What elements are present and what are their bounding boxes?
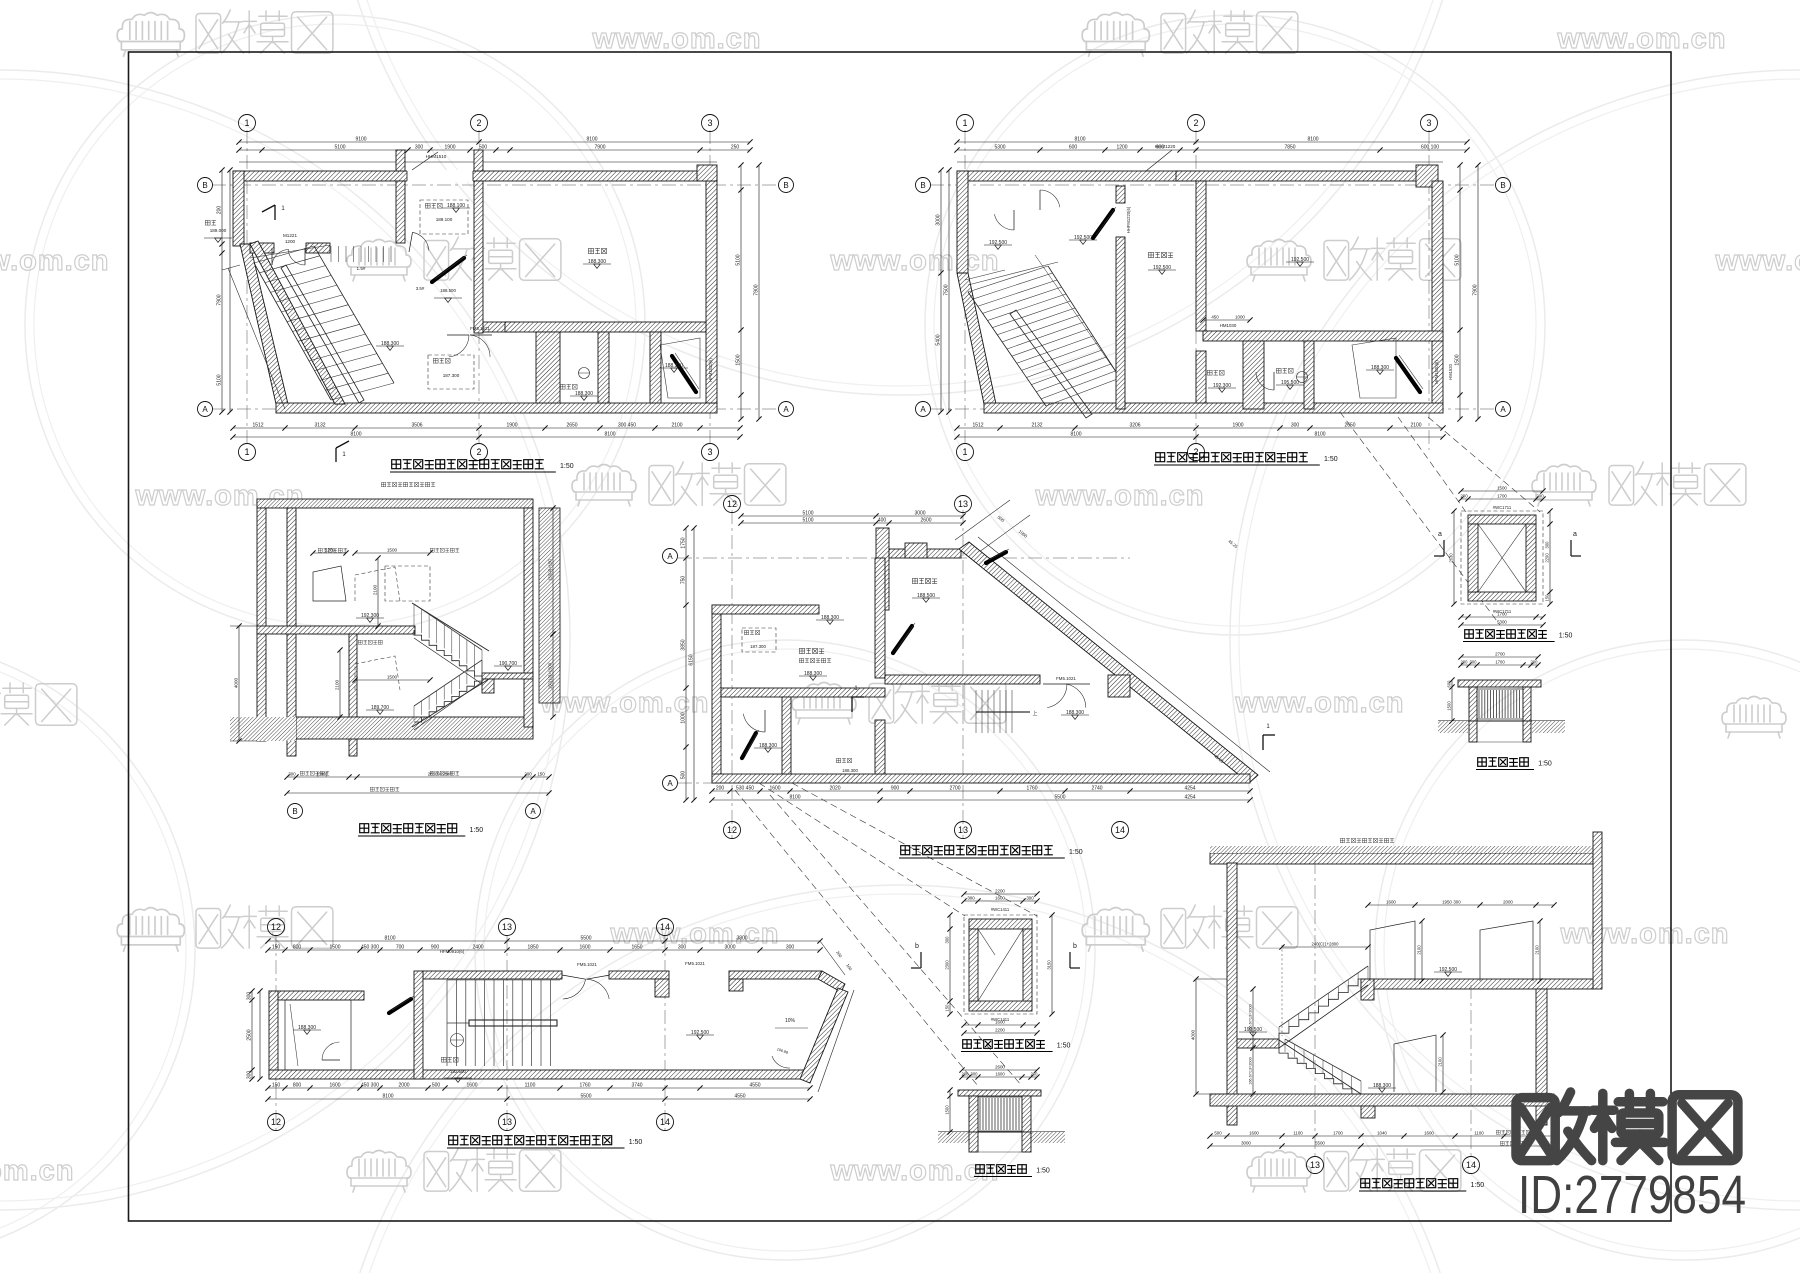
B7 top wall right segs [609, 971, 669, 979]
B2 top dimension row [957, 141, 1467, 143]
svg-text:300: 300 [1453, 899, 1461, 904]
B7 bubble 14 top [657, 919, 674, 936]
svg-text:www.om.cn: www.om.cn [829, 1155, 999, 1187]
B2 grid bubble A right [1496, 402, 1511, 417]
svg-text:3.5#: 3.5# [416, 286, 425, 291]
B1 right dimension column [740, 165, 742, 419]
B4 diagonal outer line [978, 537, 1270, 772]
B4 lower-left blast mark [742, 733, 756, 758]
svg-text:B: B [1500, 181, 1505, 190]
svg-text:1:50: 1:50 [629, 1139, 643, 1146]
svg-text:1850: 1850 [527, 944, 538, 950]
B7 grid lines [275, 935, 277, 1130]
B9 stair cross lines [1279, 1040, 1361, 1094]
B3 note above [381, 482, 385, 486]
B9 left rotated dims [1252, 989, 1254, 1048]
B2 trapezoid deflector [1352, 338, 1396, 398]
svg-text:300: 300 [786, 944, 795, 950]
svg-text:M1221: M1221 [283, 233, 297, 238]
svg-text:300: 300 [967, 895, 975, 900]
B8 inner frame [978, 929, 1023, 1001]
svg-text:1:50: 1:50 [1036, 1168, 1050, 1175]
svg-text:800: 800 [293, 1082, 302, 1088]
watermark row 1 [117, 13, 184, 57]
B1 room jiqi label [560, 384, 565, 389]
B1 grid bubble 2 bottom [471, 444, 488, 461]
B1 wall under filter room [505, 322, 706, 332]
svg-text:2100: 2100 [1534, 945, 1539, 955]
B2 stair dims diag [1035, 255, 1125, 385]
svg-text:300: 300 [971, 1071, 979, 1076]
B4 left dim column [685, 528, 687, 800]
svg-text:7900: 7900 [594, 144, 605, 150]
svg-text:7900: 7900 [753, 284, 759, 295]
B2 detail circle [1297, 372, 1308, 383]
svg-text:2100: 2100 [671, 422, 682, 428]
B7 top dim rows [268, 940, 820, 942]
B3 downstand wall [349, 634, 357, 756]
svg-text:12: 12 [727, 499, 737, 509]
B4 top walls near 13 [876, 528, 889, 610]
B1 room door FM5.1621 [447, 334, 469, 336]
svg-text:1700: 1700 [1333, 1130, 1343, 1135]
svg-text:450 300: 450 300 [361, 1082, 379, 1088]
B9 soil strip above slab [1210, 846, 1593, 853]
B1 grid bubble 3 bottom [702, 444, 719, 461]
svg-text:13: 13 [1310, 1160, 1320, 1170]
svg-text:8100: 8100 [384, 935, 395, 941]
B2 right room wall HM1030 [1203, 331, 1443, 341]
B3 left outer wall [257, 508, 266, 741]
svg-text:600: 600 [1069, 144, 1078, 150]
border frame [129, 52, 1672, 1221]
B3 right side dims [552, 508, 554, 634]
svg-text:1900: 1900 [506, 422, 517, 428]
svg-text:13: 13 [502, 922, 512, 932]
B9 left wall [1227, 863, 1237, 1125]
svg-text:2200: 2200 [995, 1027, 1005, 1032]
B4 bubble 14 bottom [1112, 822, 1129, 839]
svg-text:HFM1520(6): HFM1520(6) [708, 358, 713, 382]
B1 grid bubble A left [198, 402, 213, 417]
B9 bubble 14 [1463, 1157, 1480, 1174]
B9 bottom dim rows [1210, 1135, 1554, 1137]
B3 bottom slab [296, 717, 533, 739]
svg-text:1900: 1900 [444, 144, 455, 150]
B6 louver frame [1477, 689, 1523, 719]
svg-text:5100: 5100 [735, 254, 741, 265]
svg-text:7850: 7850 [1284, 144, 1295, 150]
svg-text:1600: 1600 [1386, 899, 1396, 904]
svg-text:1:50: 1:50 [1324, 456, 1338, 463]
svg-text:900: 900 [891, 785, 900, 791]
B3 left outer dims [238, 626, 240, 741]
B8 bb title [976, 1165, 985, 1174]
svg-text:1600: 1600 [995, 1071, 1005, 1076]
svg-text:2100: 2100 [1437, 1057, 1442, 1067]
svg-text:3: 3 [707, 118, 712, 128]
svg-text:2132: 2132 [1031, 422, 1042, 428]
svg-text:200: 200 [216, 206, 222, 215]
B1 partition shaft wall [536, 332, 560, 403]
B5 top dims [1461, 490, 1543, 492]
svg-text:1:50: 1:50 [469, 827, 483, 834]
svg-text:3000: 3000 [914, 510, 925, 516]
svg-text:200: 200 [716, 785, 725, 791]
B2 right wall [1432, 181, 1443, 403]
B4 bubble A left top [663, 549, 678, 564]
B9 stair flight down [1279, 1048, 1361, 1094]
B1 section cut mark bottom [336, 441, 349, 448]
B7 inner room [285, 1000, 351, 1070]
svg-text:300: 300 [944, 936, 949, 944]
B7 kuosan room labels [451, 1034, 464, 1047]
svg-text:1650: 1650 [631, 944, 642, 950]
svg-text:300: 300 [1470, 659, 1478, 664]
svg-text:7900: 7900 [216, 294, 222, 305]
svg-text:1: 1 [244, 118, 249, 128]
B8 damper diagonals [978, 929, 1023, 1001]
svg-text:2600: 2600 [995, 1064, 1005, 1069]
svg-text:14: 14 [660, 1117, 670, 1127]
svg-text:1600: 1600 [1249, 1130, 1259, 1135]
B7 bubble 13 bottom [499, 1114, 516, 1131]
B4 bubble A left bottom [663, 776, 678, 791]
svg-text:300: 300 [1026, 895, 1034, 900]
svg-text:192.500: 192.500 [450, 1069, 466, 1074]
B2 outer walls [957, 171, 1207, 181]
svg-text:8100: 8100 [350, 431, 361, 437]
svg-text:166.67/13=2000: 166.67/13=2000 [1248, 1004, 1252, 1032]
B4 blast mark central [893, 626, 912, 653]
svg-text:200: 200 [1460, 493, 1468, 498]
svg-text:150(10)=1500: 150(10)=1500 [547, 662, 552, 689]
B3 soil left [230, 717, 296, 741]
svg-text:2100: 2100 [1416, 945, 1421, 955]
svg-text:2200: 2200 [1544, 553, 1549, 563]
svg-text:8100: 8100 [604, 431, 615, 437]
B2 grid bubble B right [1496, 178, 1511, 193]
svg-text:500: 500 [680, 771, 686, 780]
B7 stair treads [447, 979, 560, 981]
B6 side walls [1469, 687, 1477, 721]
svg-text:2020: 2020 [829, 785, 840, 791]
B4 section marks [851, 697, 853, 712]
B1 upper corridor door arcs [409, 232, 413, 252]
B1 grid bubble 3 top [702, 115, 719, 132]
svg-text:12: 12 [727, 825, 737, 835]
B2 corridor wall W2 [1196, 181, 1206, 331]
B2 interior wall W1 [1116, 186, 1125, 203]
B3 bottom dim row [287, 776, 549, 778]
B8 bb louver frame [978, 1097, 1022, 1131]
B9 bottom slab [1210, 1094, 1554, 1106]
svg-text:300: 300 [288, 771, 296, 776]
svg-text:a: a [1438, 531, 1442, 538]
B4 bubble 12 top [724, 496, 741, 513]
svg-text:a: a [1573, 531, 1577, 538]
B2 top door HHM1220 [1146, 150, 1172, 171]
svg-text:2100: 2100 [372, 584, 377, 595]
B2 top-right column [1416, 165, 1438, 187]
svg-text:3000: 3000 [724, 944, 735, 950]
svg-text:3206: 3206 [1129, 422, 1140, 428]
svg-text:A: A [783, 405, 789, 414]
svg-text:8100: 8100 [1074, 136, 1085, 142]
svg-text:7900: 7900 [1472, 284, 1478, 295]
B1 interior wall W2 central [474, 181, 483, 333]
B2 stair treads [968, 292, 1046, 406]
B5 wall ring [1468, 515, 1536, 524]
B9 profile shapes [1370, 921, 1415, 981]
B1 partition P2 [598, 332, 609, 403]
svg-text:3506: 3506 [411, 422, 422, 428]
B9 stair flight up [1279, 979, 1368, 1040]
B3 stair flight lower [414, 676, 482, 722]
svg-text:6150: 6150 [688, 654, 694, 665]
B2 room jiqi [1207, 370, 1212, 375]
B6 soil hatch [1438, 721, 1468, 733]
B1 wall M1221 with door [250, 243, 274, 253]
B2 grid bubble A left [916, 402, 931, 417]
B9 top slab [1210, 853, 1593, 864]
B8 bb side walls [969, 1096, 978, 1132]
B8 bb ground [938, 1131, 1065, 1133]
svg-text:10%: 10% [785, 1018, 796, 1024]
B1 room label huedu [588, 248, 593, 253]
svg-text:2650: 2650 [566, 422, 577, 428]
B2 title [1156, 453, 1165, 462]
big brand logo 欧模网 [1516, 1098, 1555, 1161]
B9 far left dim [1195, 979, 1197, 1094]
B9 bubble 13 [1307, 1157, 1324, 1174]
B1 blast mark 2 [672, 356, 696, 392]
svg-text:750: 750 [680, 576, 686, 585]
svg-text:5400: 5400 [935, 334, 941, 345]
svg-text:2700: 2700 [1495, 651, 1505, 656]
B4 pit dashed box [742, 628, 776, 652]
B4 inner horizontal wall left [721, 688, 885, 697]
svg-text:200: 200 [1031, 1071, 1039, 1076]
B2 room kuosan [1276, 368, 1281, 373]
B2 interior door upper [1013, 210, 1015, 230]
B8 dashed outline [964, 915, 1037, 1014]
B4 corridor label [912, 578, 917, 583]
B9 dims top between profiles [1368, 904, 1554, 906]
svg-text:1750: 1750 [680, 537, 686, 548]
B6 underground walls [1469, 721, 1477, 742]
svg-text:600: 600 [1446, 680, 1451, 688]
B3 mid slab [257, 626, 415, 634]
svg-text:3132: 3132 [314, 422, 325, 428]
svg-text:b: b [1073, 943, 1077, 950]
svg-text:300: 300 [246, 1071, 252, 1080]
svg-text:800: 800 [293, 944, 302, 950]
svg-text:8100: 8100 [382, 1093, 393, 1099]
B3 bubble A [526, 804, 541, 819]
B4 bubble 13 top [955, 496, 972, 513]
svg-text:A: A [920, 405, 926, 414]
svg-text:上: 上 [1032, 710, 1037, 717]
svg-text:200: 200 [962, 1071, 970, 1076]
B6 louver fins [1478, 690, 1480, 718]
svg-text:www.om.cn: www.om.cn [1556, 23, 1726, 55]
svg-text:www.om.cn: www.om.cn [829, 245, 999, 277]
B1 stair diagonal walls [250, 241, 345, 404]
B1 grid bubble B left [198, 178, 213, 193]
B4 bubble 13 bottom [955, 822, 972, 839]
B4 bubble 12 bottom [724, 822, 741, 839]
B1 dashed pit box [420, 200, 468, 234]
B4 left outer walls [712, 605, 721, 783]
B4 lower-left partition [782, 697, 791, 774]
B9 dim above stairs [1282, 946, 1368, 948]
B2 dashed leaders to vent plan [1398, 417, 1466, 512]
svg-text:HHFM1220(6): HHFM1220(6) [1126, 206, 1131, 233]
svg-text:5300: 5300 [1497, 619, 1507, 624]
B3 right outer wall [539, 508, 560, 703]
svg-text:1100: 1100 [525, 1082, 536, 1088]
B2 blast mark 2 [1396, 358, 1420, 392]
svg-text:1500: 1500 [1454, 354, 1460, 365]
plan block B2 grid lines [964, 130, 966, 450]
B7 top-right slanted dim [820, 941, 845, 975]
B3 lower dashed profile [355, 656, 400, 690]
svg-text:1600: 1600 [995, 1019, 1005, 1024]
svg-text:7500: 7500 [943, 284, 949, 295]
B1 section cut mark [262, 205, 275, 212]
svg-text:3: 3 [1426, 118, 1431, 128]
svg-text:2000: 2000 [398, 1082, 409, 1088]
svg-text:5100: 5100 [216, 374, 222, 385]
svg-text:300: 300 [415, 144, 424, 150]
B7 bottom dim rows [268, 1087, 810, 1089]
B3 bubble B [288, 804, 303, 819]
svg-text:2300: 2300 [944, 960, 949, 970]
svg-text:FM5.1621: FM5.1621 [470, 326, 490, 331]
svg-text:1950: 1950 [1442, 899, 1452, 904]
B2 door arc bottom [1273, 372, 1275, 390]
svg-text:14: 14 [1115, 825, 1125, 835]
svg-text:200: 200 [1531, 659, 1539, 664]
B1 room kuosan trapezoid [660, 338, 700, 398]
svg-text:5500: 5500 [580, 1093, 591, 1099]
B9 right wall [1536, 989, 1547, 1125]
svg-text:1500: 1500 [1446, 701, 1451, 711]
svg-text:700: 700 [396, 944, 405, 950]
svg-text:1512: 1512 [972, 422, 983, 428]
B4 bottom wall [712, 774, 1250, 783]
svg-text:450 300: 450 300 [361, 944, 379, 950]
B5 inner frame [1478, 524, 1526, 592]
svg-text:1100: 1100 [1293, 1130, 1303, 1135]
B1 hall wall W3 [483, 322, 517, 332]
svg-text:13: 13 [958, 825, 968, 835]
svg-text:HM1030: HM1030 [1220, 323, 1237, 328]
B4 title [901, 846, 910, 855]
B3 right wall [524, 508, 533, 727]
svg-text:B: B [920, 181, 925, 190]
svg-text:1900: 1900 [1232, 422, 1243, 428]
B6 top slab [1458, 680, 1541, 687]
B2 grid bubble B left [916, 178, 931, 193]
svg-text:2200: 2200 [995, 888, 1005, 893]
svg-text:2700: 2700 [949, 785, 960, 791]
svg-text:12: 12 [271, 1117, 281, 1127]
B8 bb top dims [962, 1069, 1037, 1071]
B7 left dim column [251, 991, 253, 1079]
svg-text:2: 2 [476, 118, 481, 128]
svg-text:3: 3 [707, 447, 712, 457]
B1 outer walls [233, 171, 717, 181]
svg-text:1:50: 1:50 [1538, 761, 1552, 768]
svg-text:530 450: 530 450 [736, 785, 754, 791]
B2 left dimension column [940, 170, 942, 412]
svg-text:A: A [667, 779, 673, 788]
svg-text:300: 300 [1291, 422, 1300, 428]
B3 ramp profile [313, 566, 346, 601]
B4 small top block [905, 543, 927, 558]
svg-text:1500: 1500 [329, 944, 340, 950]
B1 door M1221 [271, 248, 273, 265]
svg-text:5100: 5100 [802, 510, 813, 516]
svg-text:3740: 3740 [631, 1082, 642, 1088]
B3 dims upper [313, 552, 346, 554]
svg-text:B: B [292, 807, 297, 816]
svg-text:187.300: 187.300 [443, 373, 460, 378]
svg-text:5100: 5100 [334, 144, 345, 150]
svg-text:1700: 1700 [1495, 659, 1505, 664]
svg-text:8100: 8100 [1070, 431, 1081, 437]
B8 title vent [963, 1040, 972, 1049]
B8 bb top slab [958, 1090, 1041, 1096]
svg-text:1500: 1500 [387, 547, 398, 552]
svg-text:4254: 4254 [1184, 794, 1195, 800]
svg-text:12: 12 [271, 922, 281, 932]
B3 stair flight upper [414, 630, 482, 676]
B7 bubble 14 bottom [657, 1114, 674, 1131]
svg-text:1600: 1600 [579, 944, 590, 950]
svg-text:13: 13 [958, 499, 968, 509]
svg-text:1700: 1700 [1497, 611, 1507, 616]
svg-text:8100: 8100 [1314, 431, 1325, 437]
B9 note above [1340, 838, 1344, 842]
svg-text:188.300: 188.300 [842, 768, 858, 773]
svg-text:150: 150 [537, 771, 545, 776]
svg-text:13: 13 [502, 1117, 512, 1127]
svg-text:1: 1 [962, 447, 967, 457]
B3 dashed profile box [355, 567, 400, 601]
B2 right dimension column [1459, 165, 1461, 419]
watermark circle pattern [25, 15, 645, 635]
B7 outer walls left box [269, 991, 364, 1000]
B7 right columns [655, 979, 669, 997]
B2 partition shaft [1243, 341, 1264, 409]
B1 title [392, 460, 401, 469]
svg-text:3000: 3000 [1241, 1140, 1251, 1145]
svg-text:150: 150 [944, 1004, 949, 1012]
svg-text:2740: 2740 [1091, 785, 1102, 791]
svg-text:5500: 5500 [1315, 1140, 1325, 1145]
svg-text:150: 150 [272, 1082, 281, 1088]
svg-text:300: 300 [246, 992, 252, 1001]
svg-text:1:50: 1:50 [1470, 1182, 1484, 1189]
B8 bb underground [969, 1132, 978, 1152]
B4 bottom dim rows [712, 790, 1250, 792]
svg-text:HFM1520(6): HFM1520(6) [1434, 360, 1439, 384]
svg-text:14: 14 [660, 922, 670, 932]
B3 title [360, 824, 369, 833]
